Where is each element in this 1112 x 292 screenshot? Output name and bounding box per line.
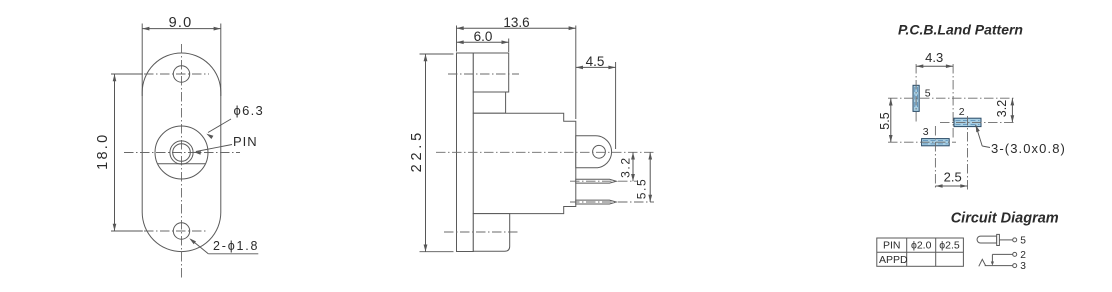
svg-text:2-ϕ1.8: 2-ϕ1.8 [213,239,259,253]
svg-text:2.5: 2.5 [944,170,962,185]
svg-text:5.5: 5.5 [634,178,648,199]
svg-text:APPD: APPD [879,254,908,266]
svg-text:4.3: 4.3 [925,50,943,65]
svg-text:PIN: PIN [883,240,901,252]
svg-text:2: 2 [959,106,965,118]
svg-text:22.5: 22.5 [409,129,425,172]
svg-text:5.5: 5.5 [878,112,892,129]
svg-text:P.C.B.Land Pattern: P.C.B.Land Pattern [898,22,1023,38]
svg-text:9.0: 9.0 [169,15,193,31]
svg-text:3-(3.0x0.8): 3-(3.0x0.8) [991,141,1066,156]
svg-text:5: 5 [1020,235,1026,246]
svg-text:ϕ2.5: ϕ2.5 [939,240,960,252]
svg-text:6.0: 6.0 [474,29,493,44]
svg-text:4.5: 4.5 [586,54,605,69]
svg-text:3.2: 3.2 [995,100,1009,117]
svg-text:2: 2 [1020,250,1026,261]
svg-text:3.2: 3.2 [619,156,633,177]
svg-text:ϕ6.3: ϕ6.3 [234,103,265,118]
svg-text:3: 3 [923,126,929,138]
svg-text:5: 5 [925,88,931,100]
svg-text:Circuit Diagram: Circuit Diagram [951,211,1059,227]
svg-text:3: 3 [1020,261,1026,272]
svg-text:18.0: 18.0 [95,132,111,169]
svg-text:PIN: PIN [233,134,258,149]
svg-text:ϕ2.0: ϕ2.0 [911,240,932,252]
svg-text:13.6: 13.6 [503,15,529,30]
